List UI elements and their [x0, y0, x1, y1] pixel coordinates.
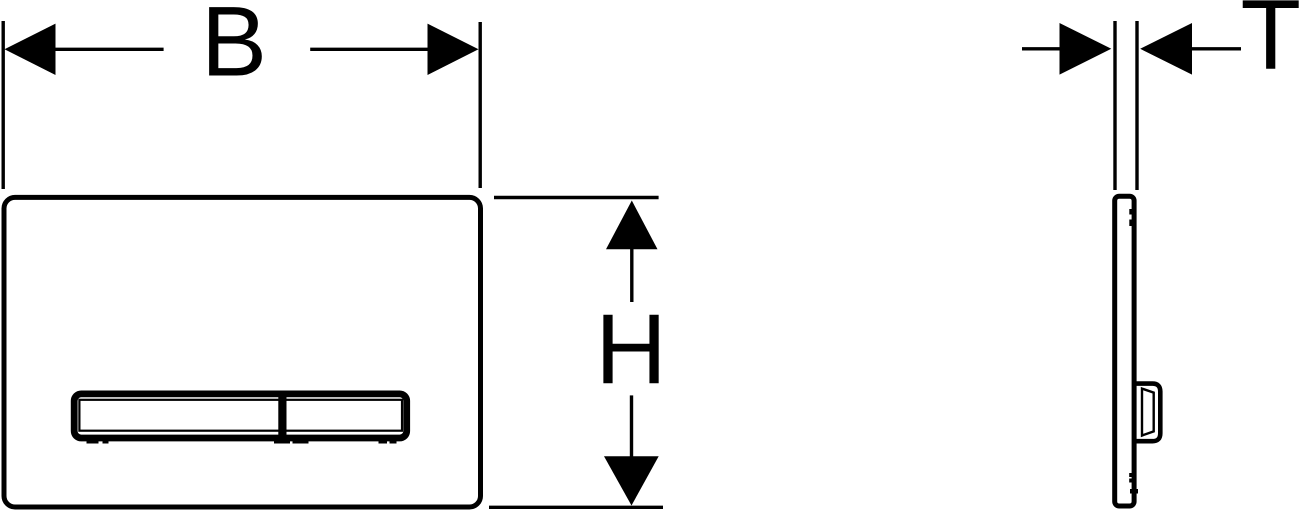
dimension B left extension line: [2, 21, 5, 189]
dimension T right arrow: [1140, 23, 1192, 75]
side view button knob outer: [1135, 384, 1160, 442]
dimension H up arrow: [606, 201, 658, 250]
dimension H bottom extension line: [489, 506, 663, 509]
side view plate outline: [1115, 196, 1134, 506]
side view button knob face: [1142, 389, 1154, 436]
dimension T right extension line: [1135, 21, 1138, 190]
side view hidden-line dashes top: [1129, 209, 1134, 215]
dimension T left extension line: [1113, 21, 1116, 190]
svg-text:H: H: [595, 293, 667, 404]
dimension B right extension line: [479, 22, 482, 188]
flush buttons outer frame: [74, 394, 407, 438]
side view hidden-line dashes bottom: [1129, 473, 1133, 477]
svg-text:B: B: [201, 0, 267, 97]
flush buttons divider: [278, 392, 286, 442]
flush buttons inner face: [79, 400, 402, 431]
dimension B left arrow: [5, 24, 56, 75]
dimension H down arrow: [630, 395, 633, 458]
dimension B right arrow: [310, 48, 430, 51]
dimension H top extension line: [494, 196, 659, 199]
dimension T left arrow: [1022, 47, 1062, 50]
svg-text:T: T: [1241, 0, 1300, 90]
front view plate outline: [4, 197, 481, 507]
flush buttons hidden-line dashes: [87, 439, 99, 444]
